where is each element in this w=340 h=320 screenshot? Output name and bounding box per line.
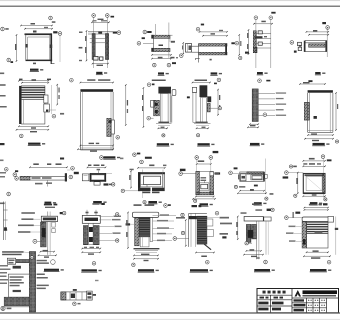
stray note between G and H [60, 113, 64, 160]
title block right grid [292, 298, 339, 313]
detail J label [197, 143, 214, 146]
margin note left of detail A label [0, 73, 4, 75]
leader bubble above detail P [133, 153, 141, 157]
detail Z label [254, 269, 275, 272]
detail O small sill plan [82, 165, 115, 187]
detail X parapet section 10-10 [126, 204, 185, 267]
detail AA label [310, 269, 332, 272]
detail E section 3-3 [245, 12, 276, 68]
detail R sill plan with window box [229, 159, 274, 201]
detail H label with index bubble [100, 156, 121, 160]
detail Y parapet section 11-11 [173, 205, 232, 264]
title block sign-off table left [257, 291, 292, 313]
company logo triangle [295, 290, 302, 297]
detail M sill section long bar [0, 160, 79, 187]
detail N narrow wall stub at left edge [3, 192, 10, 240]
detail V small sill plan bottom [61, 289, 96, 305]
left margin notes near detail G [0, 84, 7, 145]
detail P label [143, 201, 162, 204]
detail C section 2-2 [137, 23, 176, 67]
sheet bottom border line [0, 312, 340, 314]
detail L window head plan right [299, 80, 338, 143]
detail Q label [199, 203, 213, 206]
detail A label [30, 69, 44, 72]
detail S shaft plan square [283, 155, 332, 201]
sheet top border line [0, 5, 340, 7]
detail Z parapet section 12-12 [236, 203, 274, 263]
detail B label [96, 72, 107, 75]
detail Y label [190, 269, 213, 272]
detail C label [158, 72, 169, 75]
bottom page edge strip [0, 319, 340, 320]
detail K label [250, 143, 265, 146]
detail E label [257, 72, 268, 75]
top page edge strip [0, 0, 340, 1]
detail H tall jamb plan 2-2 [70, 78, 129, 151]
detail W coping section 9-9 [82, 203, 122, 265]
detail T parapet section 8-8 with boxed note [18, 204, 66, 265]
stray leader text left of detail B [79, 32, 83, 62]
detail M label [44, 202, 56, 205]
detail Q window jamb plan small [179, 151, 220, 203]
small mark below detail W label [95, 280, 99, 281]
detail X label [138, 269, 159, 272]
detail W label [81, 269, 102, 272]
detail U index bubble 1 and scale [1, 306, 12, 310]
detail O label [93, 201, 107, 204]
detail I jamb section 3-3 [142, 80, 176, 137]
detail S label [310, 202, 323, 205]
detail K wall section with leaders [247, 79, 286, 128]
detail P window sill plan [120, 157, 166, 198]
detail F section 4-4 [290, 22, 329, 57]
margin note left of detail M label [0, 203, 5, 205]
detail L label [312, 143, 329, 146]
detail F label [315, 72, 326, 75]
detail I label [157, 143, 174, 146]
detail D label [210, 72, 222, 75]
detail U foundation waterproof section [0, 251, 49, 312]
title block outer frame [257, 289, 339, 313]
detail B section 1-1 [85, 14, 121, 68]
detail A opening plan (top-left square) [1, 16, 62, 64]
leader marks right of detail C [170, 37, 178, 59]
detail G window head plan X-X [16, 79, 60, 138]
detail D section 5-5 [180, 24, 242, 63]
company name text [303, 290, 338, 296]
detail R label [254, 202, 267, 205]
detail G label [28, 143, 45, 146]
detail AA coping plan 13-13 [285, 203, 339, 264]
detail T label [44, 269, 64, 272]
detail J jamb section 4-4 [187, 78, 222, 137]
